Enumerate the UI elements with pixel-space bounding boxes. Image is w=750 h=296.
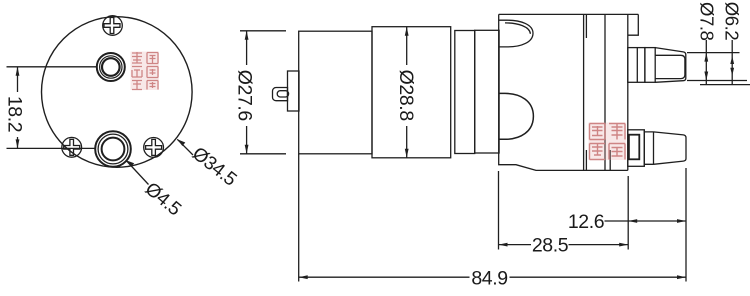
top screw [103, 16, 123, 36]
lower nozzle collar [644, 130, 653, 167]
upper nozzle collar [645, 48, 655, 83]
motor front rings [455, 30, 499, 153]
upper boss rim [505, 23, 530, 34]
pump head block [499, 14, 639, 170]
svg-text:Ø7.8: Ø7.8 [697, 2, 718, 41]
terminal hole [277, 91, 288, 97]
lower nozzle base [628, 130, 645, 167]
motor body [372, 27, 451, 158]
upper nozzle base [628, 48, 645, 83]
dimension Ø6.2 [730, 40, 734, 85]
svg-text:28.5: 28.5 [532, 235, 569, 257]
leader Ø4.5 [126, 160, 149, 184]
pump flange outline [499, 14, 628, 170]
svg-text:Ø28.8: Ø28.8 [395, 70, 417, 121]
dimension 28.5 [499, 171, 629, 250]
dimension Ø28.8 [405, 27, 409, 158]
svg-text:Ø4.5: Ø4.5 [141, 179, 185, 221]
svg-text:84.9: 84.9 [471, 267, 507, 289]
motor terminal plate [288, 71, 300, 111]
svg-text:Ø34.5: Ø34.5 [188, 143, 240, 190]
lower nozzle recess [629, 135, 639, 160]
right screw [144, 138, 164, 158]
red seal stamp (front view) [131, 52, 160, 91]
motor terminal tab [273, 88, 288, 101]
dimension Ø7.8 [687, 40, 750, 85]
dimension 18.2 [7, 67, 97, 149]
upper nozzle base step line [636, 48, 638, 83]
upper port (outlet) [97, 53, 125, 81]
motor rear cap [299, 31, 372, 154]
upper nozzle cone [655, 48, 686, 83]
red seal stamp (side view) [589, 123, 627, 161]
svg-text:18.2: 18.2 [4, 96, 26, 132]
upper boss [499, 20, 533, 47]
front view outer body circle Ø34.5 [42, 17, 193, 168]
lower nozzle cone [654, 132, 687, 164]
svg-text:Ø6.2: Ø6.2 [721, 2, 742, 41]
lower port (inlet) Ø4.5 [95, 131, 131, 167]
svg-text:12.6: 12.6 [568, 211, 604, 233]
head top tab [628, 14, 639, 35]
dimension 12.6 [605, 168, 687, 282]
dimension Ø27.6 [240, 31, 286, 154]
svg-text:Ø27.6: Ø27.6 [233, 70, 255, 121]
dimension 84.9 [299, 154, 686, 282]
leader Ø34.5 [177, 139, 193, 155]
left screw [62, 137, 82, 157]
lower boss [499, 93, 534, 139]
upper nozzle inner tube [655, 55, 685, 78]
